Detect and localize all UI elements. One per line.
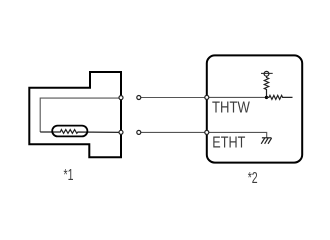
svg-text:*1: *1 — [64, 167, 74, 184]
svg-text:ETHT: ETHT — [212, 135, 245, 152]
svg-text:*2: *2 — [248, 170, 258, 187]
svg-text:THTW: THTW — [212, 100, 251, 117]
